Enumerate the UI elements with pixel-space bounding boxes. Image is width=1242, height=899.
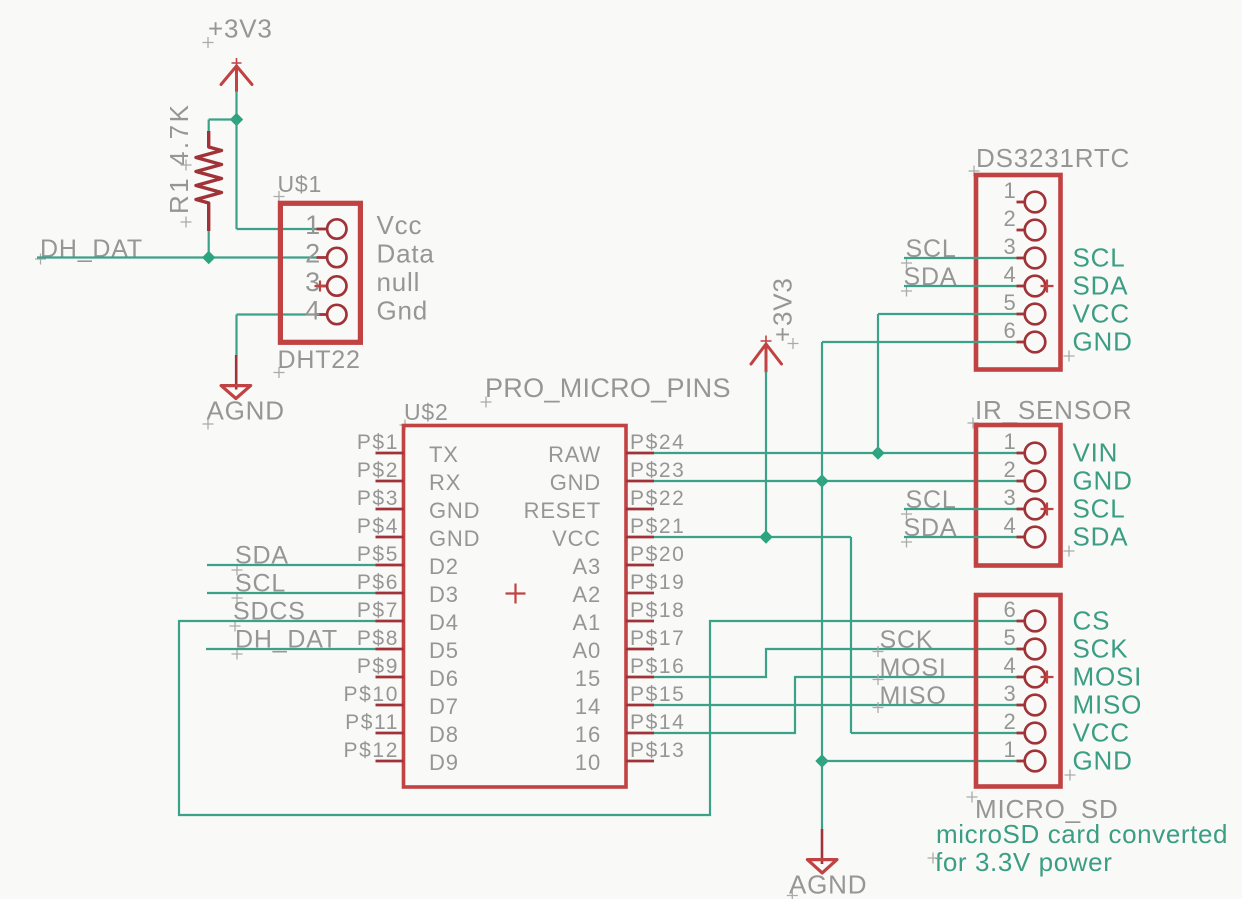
DHT22 pin 2 pad [317, 256, 328, 259]
DHT22 pin 4 pad [317, 313, 328, 316]
IR_SENSOR pin 2 pad [1017, 480, 1025, 483]
U$2 pin P$22 [626, 508, 654, 511]
U$2 origin cross [506, 584, 526, 604]
wire P$21 VCC net [654, 536, 851, 538]
U$2 pin P$1 [376, 452, 404, 455]
svg-text:PRO_MICRO_PINS: PRO_MICRO_PINS [485, 373, 731, 403]
U$2 pin P$6 [376, 592, 404, 595]
svg-text:P$23: P$23 [630, 459, 685, 482]
svg-text:RX: RX [429, 470, 461, 495]
DS3231RTC pin 3 pad [1017, 257, 1025, 260]
svg-text:16: 16 [575, 722, 601, 747]
svg-text:3: 3 [1003, 485, 1016, 510]
power symbol +3V3 arrow (middle) [751, 344, 782, 372]
svg-text:VIN: VIN [1073, 438, 1119, 468]
svg-text:A3: A3 [572, 554, 601, 579]
wire VCC net vertical [850, 537, 852, 733]
DHT22 pin 1 pad [317, 228, 328, 231]
wire +3V3 down to DHT22 pin 1 [235, 120, 237, 230]
svg-text:Vcc: Vcc [377, 210, 423, 240]
svg-text:P$13: P$13 [630, 739, 685, 762]
wire GND net vertical [821, 342, 823, 761]
svg-text:2: 2 [1003, 206, 1016, 231]
svg-text:U$1: U$1 [278, 171, 323, 197]
op-amp U$2 PRO_MICRO_PINS body [404, 426, 627, 788]
svg-text:GND: GND [1073, 746, 1133, 776]
DS3231RTC origin cross [1041, 280, 1054, 293]
svg-text:2: 2 [1003, 457, 1016, 482]
svg-text:4: 4 [305, 296, 321, 326]
svg-text:4: 4 [1003, 262, 1016, 287]
svg-text:3: 3 [1003, 681, 1016, 706]
svg-text:AGND: AGND [207, 396, 285, 426]
svg-text:1: 1 [305, 210, 321, 240]
svg-text:A1: A1 [572, 610, 601, 635]
U$2 pin P$5 [376, 564, 404, 567]
svg-text:MISO: MISO [1073, 690, 1143, 720]
svg-text:P$17: P$17 [630, 627, 685, 650]
svg-text:DH_DAT: DH_DAT [40, 235, 143, 263]
svg-text:AGND: AGND [789, 869, 867, 899]
wire SDA to IR_SENSOR pin 4 [904, 536, 1017, 538]
svg-text:P$14: P$14 [630, 711, 685, 734]
U$2 pin P$7 [376, 620, 404, 623]
wire R1 top lead [208, 120, 210, 132]
svg-text:P$4: P$4 [357, 515, 399, 538]
svg-text:P$8: P$8 [357, 627, 399, 650]
svg-text:P$5: P$5 [357, 543, 399, 566]
junction GND / MICRO_SD GND [815, 754, 828, 767]
junction VIN / DS3231 VCC [871, 446, 884, 459]
svg-text:SCK: SCK [1073, 634, 1129, 664]
svg-text:P$24: P$24 [630, 431, 685, 454]
wire MISO net P$15 to MICRO_SD pin 3 [654, 704, 1017, 706]
svg-text:RESET: RESET [524, 498, 601, 523]
wire SDA to P$5 [207, 564, 376, 566]
svg-text:IR_SENSOR: IR_SENSOR [975, 395, 1132, 425]
wire GND down to AGND [821, 761, 823, 829]
wire to DHT22 pin 1 Vcc [237, 228, 317, 230]
svg-text:1: 1 [1003, 178, 1016, 203]
U$2 pin P$17 [626, 648, 654, 651]
wire DHT22 pin 4 Gnd [237, 313, 317, 315]
MICRO_SD pin 5 pad [1017, 648, 1025, 651]
svg-text:CS: CS [1073, 606, 1111, 636]
U$2 pin P$9 [376, 676, 404, 679]
svg-text:P$10: P$10 [344, 683, 399, 706]
svg-text:SCL: SCL [1073, 243, 1126, 273]
DS3231RTC pin 6 pad [1017, 341, 1025, 344]
svg-text:D5: D5 [429, 638, 459, 663]
wire DH_DAT to DHT22 pin 2 [37, 256, 317, 258]
U$2 pin P$24 [626, 452, 654, 455]
connector MICRO_SD body [976, 595, 1061, 787]
U$2 pin P$2 [376, 480, 404, 483]
wire DS3231 pin 5 VCC [878, 313, 1017, 315]
svg-text:P$2: P$2 [357, 459, 399, 482]
svg-text:GND: GND [1073, 327, 1133, 357]
svg-text:D4: D4 [429, 610, 459, 635]
MICRO_SD pin 4 pad [1017, 676, 1025, 679]
svg-text:P$11: P$11 [345, 711, 399, 734]
svg-text:A2: A2 [572, 582, 601, 607]
svg-text:Gnd: Gnd [377, 296, 429, 326]
svg-text:15: 15 [575, 666, 601, 691]
svg-text:P$21: P$21 [630, 515, 685, 538]
svg-text:P$16: P$16 [630, 655, 685, 678]
U$2 pin P$21 [626, 536, 654, 539]
DS3231RTC pin 5 pad [1017, 313, 1025, 316]
wire VCC to MICRO_SD pin 2 [851, 732, 1017, 734]
svg-text:D3: D3 [429, 582, 459, 607]
svg-text:6: 6 [1003, 597, 1016, 622]
svg-text:14: 14 [575, 694, 601, 719]
wire R1 bottom lead to DH_DAT net [208, 231, 210, 258]
svg-text:+3V3: +3V3 [768, 277, 798, 342]
svg-text:D7: D7 [429, 694, 459, 719]
DS3231RTC pin 1 pad [1017, 201, 1025, 204]
svg-text:P$18: P$18 [630, 599, 685, 622]
wire P$23 GND to IR_SENSOR GND [654, 480, 1017, 482]
svg-text:P$3: P$3 [357, 487, 399, 510]
U$2 pin P$18 [626, 620, 654, 623]
IR_SENSOR pin 1 pad [1017, 452, 1025, 455]
wire DH_DAT to P$8 [206, 648, 376, 650]
wire SDA to DS3231 pin 4 [904, 285, 1017, 287]
svg-text:VCC: VCC [552, 526, 601, 551]
svg-text:MOSI: MOSI [880, 654, 947, 682]
wire SCL to DS3231 pin 3 [904, 257, 1017, 259]
svg-text:MISO: MISO [880, 682, 947, 710]
wire junction to R1 top [209, 118, 237, 120]
svg-text:4: 4 [1003, 653, 1016, 678]
svg-text:3: 3 [1003, 234, 1016, 259]
connector IR_SENSOR body [976, 425, 1061, 566]
wire SDCS loop P$7 around bottom to MICRO_SD CS [179, 621, 1017, 815]
svg-text:P$22: P$22 [630, 487, 685, 510]
svg-text:5: 5 [1003, 290, 1016, 315]
IR_SENSOR pin 4 pad [1017, 536, 1025, 539]
svg-text:1: 1 [1003, 429, 1016, 454]
resistor R1 4.7K [196, 131, 222, 231]
junction GND net / IR GND [815, 474, 828, 487]
wire SCL to IR_SENSOR pin 3 [904, 508, 1017, 510]
svg-text:6: 6 [1003, 318, 1016, 343]
IR_SENSOR pin 3 pad [1017, 508, 1025, 511]
svg-text:VCC: VCC [1073, 299, 1130, 329]
wire +3V3 to junction [235, 91, 237, 120]
U$2 pin P$20 [626, 564, 654, 567]
wire MOSI net P$14 to MICRO_SD pin 4 [654, 677, 1017, 733]
svg-text:GND: GND [429, 526, 480, 551]
svg-text:GND: GND [429, 498, 480, 523]
wire DS3231 VCC vertical [877, 314, 879, 453]
svg-text:P$9: P$9 [357, 655, 399, 678]
svg-text:VCC: VCC [1073, 718, 1130, 748]
svg-text:U$2: U$2 [404, 399, 449, 425]
svg-text:D9: D9 [429, 750, 459, 775]
U$2 pin P$16 [626, 676, 654, 679]
U$2 pin P$8 [376, 648, 404, 651]
svg-text:3: 3 [305, 267, 321, 297]
wire SCL to P$6 [207, 592, 376, 594]
svg-text:A0: A0 [572, 638, 601, 663]
svg-text:Data: Data [377, 239, 435, 269]
MICRO_SD pin 3 pad [1017, 704, 1025, 707]
svg-text:MOSI: MOSI [1073, 662, 1143, 692]
svg-text:for 3.3V power: for 3.3V power [935, 847, 1113, 877]
U$2 pin P$14 [626, 732, 654, 735]
ground AGND (bottom) symbol [821, 829, 824, 864]
connector DS3231RTC body [976, 175, 1061, 370]
DS3231RTC pin 4 pad [1017, 285, 1025, 288]
svg-text:SDA: SDA [1073, 522, 1129, 552]
U$2 pin P$3 [376, 508, 404, 511]
MICRO_SD pin 6 pad [1017, 620, 1025, 623]
svg-text:5: 5 [1003, 625, 1016, 650]
DS3231RTC pin 2 pad [1017, 229, 1025, 232]
svg-text:4: 4 [1003, 513, 1016, 538]
connector U$1 DHT22 body [280, 203, 360, 342]
svg-text:P$12: P$12 [344, 739, 399, 762]
svg-text:D6: D6 [429, 666, 459, 691]
svg-text:+3V3: +3V3 [208, 14, 273, 44]
svg-text:P$15: P$15 [630, 683, 685, 706]
MICRO_SD pin 2 pad [1017, 732, 1025, 735]
svg-text:DHT22: DHT22 [278, 346, 361, 374]
U$2 pin P$11 [376, 732, 404, 735]
svg-text:SCK: SCK [880, 626, 934, 654]
svg-text:D8: D8 [429, 722, 459, 747]
U$2 pin P$10 [376, 704, 404, 707]
U$2 pin P$12 [376, 760, 404, 763]
svg-text:SDA: SDA [1073, 271, 1129, 301]
wire DS3231 pin 6 GND [822, 341, 1017, 343]
junction +3V3 / VCC net [759, 530, 772, 543]
MICRO_SD origin cross [1041, 671, 1054, 684]
svg-text:2: 2 [305, 239, 321, 269]
svg-text:D2: D2 [429, 554, 459, 579]
power symbol +3V3 arrow (top) [221, 66, 252, 91]
wire P$24 RAW to IR_SENSOR VIN [654, 452, 1017, 454]
wire SCK net P$16 to MICRO_SD pin 5 [654, 649, 1017, 677]
ground AGND (left) symbol [235, 355, 238, 390]
MICRO_SD pin 1 pad [1017, 760, 1025, 763]
U$2 pin P$19 [626, 592, 654, 595]
svg-text:GND: GND [1073, 466, 1133, 496]
svg-text:P$19: P$19 [630, 571, 685, 594]
wire DHT22 Gnd down to AGND [235, 315, 237, 357]
svg-text:1: 1 [1003, 737, 1016, 762]
svg-text:2: 2 [1003, 709, 1016, 734]
DHT22 origin cross at pin 3 [315, 281, 326, 292]
U$2 pin P$15 [626, 704, 654, 707]
svg-text:P$1: P$1 [357, 431, 399, 454]
wire +3V3 down to VCC net [765, 372, 767, 538]
svg-text:GND: GND [550, 470, 601, 495]
svg-text:DS3231RTC: DS3231RTC [976, 143, 1130, 173]
U$2 pin P$13 [626, 760, 654, 763]
svg-text:null: null [377, 267, 421, 297]
svg-text:SCL: SCL [1073, 494, 1126, 524]
svg-text:P$6: P$6 [357, 571, 399, 594]
U$2 pin P$4 [376, 536, 404, 539]
svg-text:RAW: RAW [548, 442, 601, 467]
junction R1 / DH_DAT [202, 251, 215, 264]
wire GND to MICRO_SD pin 1 [822, 760, 1017, 762]
svg-text:TX: TX [429, 442, 459, 467]
DHT22 pin 3 pad [317, 285, 328, 288]
junction +3V3 / R1 / DHT22 Vcc [230, 113, 243, 126]
svg-text:P$20: P$20 [630, 543, 685, 566]
svg-text:microSD card converted: microSD card converted [936, 819, 1228, 849]
svg-text:10: 10 [575, 750, 601, 775]
U$2 pin P$23 [626, 480, 654, 483]
svg-text:P$7: P$7 [357, 599, 399, 622]
svg-text:R1 4.7K: R1 4.7K [164, 103, 194, 214]
IR_SENSOR origin cross [1041, 503, 1054, 516]
